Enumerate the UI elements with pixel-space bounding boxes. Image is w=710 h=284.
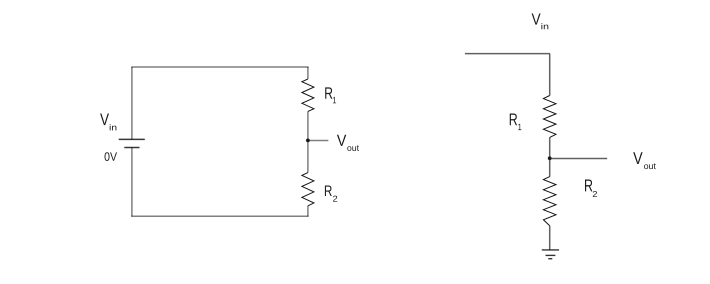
label Vout sub out (left) (347, 145, 359, 151)
label R1 R (left) (325, 87, 332, 98)
label Vout V (right) (633, 152, 642, 164)
wire rail to R1 (right circuit) (549, 54, 551, 96)
label Vin V (right) (532, 14, 541, 25)
label R1 sub 1 (right) (518, 124, 521, 130)
wire R1 to R2 (through node) (307, 111, 309, 172)
label Vin V (left) (100, 114, 109, 126)
wire node to Vout (right circuit) (550, 158, 608, 160)
battery V1 short plate (124, 147, 139, 149)
resistor R1 (right circuit) (543, 96, 556, 138)
wire bottom (left circuit) (131, 215, 308, 217)
ground (542, 250, 559, 259)
wire right upper (top to R1) (307, 67, 309, 79)
battery V1 long plate (119, 138, 145, 140)
wire top (left circuit) (131, 66, 308, 68)
wire left upper (to battery) (131, 67, 133, 139)
label Vin sub in (right) (541, 23, 548, 29)
label Vout sub out (right) (644, 163, 656, 169)
wire left lower (battery to bottom) (131, 148, 133, 217)
label Vout V (left) (337, 135, 346, 146)
wire Vin rail (right circuit) (465, 53, 550, 55)
wire node to Vout stub (left) (308, 140, 329, 142)
label R1 sub 1 (left) (333, 97, 336, 103)
label R2 R (left) (325, 186, 332, 196)
resistor R2 (left circuit) (302, 173, 314, 206)
label Vin sub in (left) (110, 124, 117, 130)
label R2 sub 2 (right) (593, 191, 597, 197)
resistor R1 (left circuit) (302, 79, 314, 111)
node Vout junction dot (right circuit) (548, 156, 552, 160)
label 0V (battery) (105, 152, 118, 161)
wire R2 to bottom (left circuit) (307, 206, 309, 217)
label R2 sub 2 (left) (333, 196, 337, 202)
label R1 R (right) (510, 114, 517, 126)
wire R2 to ground (right circuit) (549, 226, 551, 250)
resistor R2 (right circuit) (543, 177, 556, 226)
wire R1 to node (right circuit) (549, 137, 551, 176)
label R2 R (right) (585, 179, 592, 191)
node Vout junction dot (left circuit) (306, 139, 310, 143)
